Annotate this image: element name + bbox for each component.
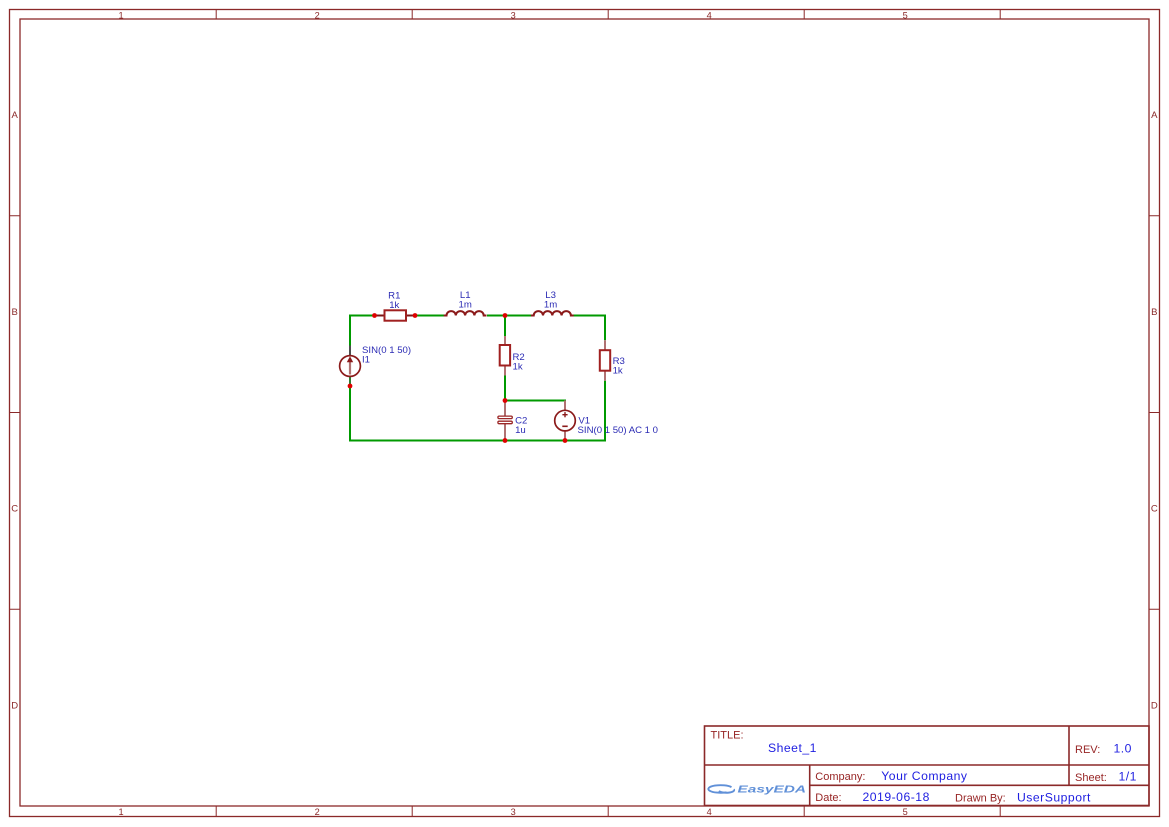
svg-text:Company:: Company: bbox=[815, 771, 865, 783]
svg-text:UserSupport: UserSupport bbox=[1017, 791, 1091, 805]
svg-text:1/1: 1/1 bbox=[1119, 769, 1137, 783]
junction V1 bottom bbox=[563, 438, 568, 443]
junction R1 left pin bbox=[372, 313, 377, 318]
wire left rail bbox=[349, 315, 351, 442]
svg-text:1m: 1m bbox=[544, 300, 557, 311]
svg-text:SIN(0 1 50) AC 1 0: SIN(0 1 50) AC 1 0 bbox=[578, 425, 659, 436]
svg-text:2019-06-18: 2019-06-18 bbox=[863, 790, 930, 804]
svg-text:4: 4 bbox=[707, 807, 712, 817]
svg-text:I1: I1 bbox=[362, 354, 370, 365]
junction dots bbox=[348, 313, 568, 443]
ruler ticks top bbox=[216, 10, 1000, 20]
EasyEDA logo bbox=[708, 785, 806, 796]
svg-text:C: C bbox=[11, 504, 18, 515]
svg-text:EasyEDA: EasyEDA bbox=[738, 785, 807, 796]
svg-text:1k: 1k bbox=[613, 365, 623, 376]
svg-text:TITLE:: TITLE: bbox=[711, 730, 744, 742]
junction node R2/C2/V1 wire bbox=[503, 398, 508, 403]
svg-text:1m: 1m bbox=[459, 300, 472, 311]
svg-text:1.0: 1.0 bbox=[1114, 742, 1132, 756]
svg-text:Sheet:: Sheet: bbox=[1075, 772, 1107, 784]
svg-text:Date:: Date: bbox=[815, 792, 841, 804]
svg-text:B: B bbox=[1151, 307, 1157, 318]
ruler ticks left bbox=[10, 216, 21, 610]
ruler ticks right bbox=[1149, 216, 1160, 610]
svg-text:2: 2 bbox=[315, 807, 320, 817]
svg-text:D: D bbox=[1151, 700, 1158, 711]
svg-text:3: 3 bbox=[511, 10, 516, 20]
svg-text:5: 5 bbox=[903, 807, 908, 817]
voltage source V1 bbox=[555, 401, 576, 441]
wire R2 branch bbox=[504, 316, 506, 401]
resistor R3 bbox=[600, 340, 610, 381]
svg-text:Drawn By:: Drawn By: bbox=[955, 793, 1006, 805]
resistor R1 bbox=[375, 310, 416, 320]
ruler letters left bbox=[11, 110, 18, 711]
wire mid horizontal to V1 bbox=[505, 400, 566, 402]
wire bottom rail bbox=[349, 440, 606, 442]
inductor L3 bbox=[531, 311, 574, 315]
svg-text:Your Company: Your Company bbox=[881, 769, 968, 783]
svg-text:2: 2 bbox=[315, 10, 320, 20]
junction R1 right pin bbox=[413, 313, 418, 318]
current source I1 bbox=[340, 346, 361, 387]
svg-text:1: 1 bbox=[118, 10, 123, 20]
ruler numbers bottom bbox=[118, 807, 907, 817]
svg-text:A: A bbox=[12, 110, 19, 121]
ruler letters right bbox=[1151, 110, 1158, 711]
ruler numbers top bbox=[118, 10, 907, 20]
svg-text:1k: 1k bbox=[389, 300, 399, 311]
wire right rail bbox=[604, 315, 606, 442]
svg-text:Sheet_1: Sheet_1 bbox=[768, 741, 817, 755]
svg-text:5: 5 bbox=[903, 10, 908, 20]
inductor L1 bbox=[444, 311, 487, 315]
svg-text:1: 1 bbox=[118, 807, 123, 817]
resistor R2 bbox=[500, 336, 510, 376]
capacitor C2 bbox=[498, 401, 512, 441]
svg-text:4: 4 bbox=[707, 10, 712, 20]
svg-text:3: 3 bbox=[511, 807, 516, 817]
junction node L1/L3/R2 bbox=[503, 313, 508, 318]
ruler ticks bottom bbox=[216, 806, 1000, 817]
svg-text:REV:: REV: bbox=[1075, 744, 1100, 756]
svg-text:C: C bbox=[1151, 504, 1158, 515]
junction below I1 bbox=[348, 384, 353, 389]
svg-text:A: A bbox=[1151, 110, 1158, 121]
svg-text:1u: 1u bbox=[515, 425, 526, 436]
junction C2 bottom bbox=[503, 438, 508, 443]
wire top rail bbox=[350, 315, 606, 317]
svg-text:1k: 1k bbox=[513, 362, 523, 373]
svg-text:D: D bbox=[11, 700, 18, 711]
svg-text:B: B bbox=[12, 307, 18, 318]
